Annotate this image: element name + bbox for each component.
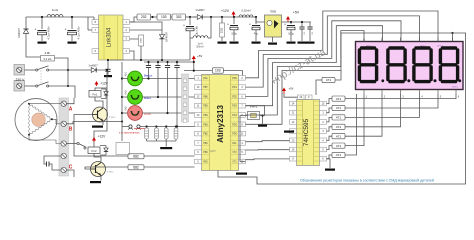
wire C10 gnd: [107, 71, 109, 75]
wire winding to C: [29, 135, 61, 144]
wire +12 to K2: [94, 88, 107, 147]
wire segment bottom 4: [345, 94, 401, 127]
junction ZQ1 gnd: [261, 114, 263, 116]
inductor: [47, 15, 63, 17]
ground U4: [284, 131, 294, 133]
svg-text:Вниз: Вниз: [144, 96, 151, 100]
wire Kn1 left: [122, 78, 128, 80]
display decimal point 4: [458, 79, 461, 82]
capacitor C4 100u: [227, 23, 238, 30]
wire U4 gnd stem: [285, 128, 290, 150]
wire cap top: [157, 62, 159, 66]
wire pull rail gnd: [165, 141, 167, 147]
pin 4 U4: [320, 138, 327, 143]
regulator IC U2 7805: [265, 10, 282, 38]
inductor: [193, 36, 208, 38]
wire segment top 3: [246, 21, 402, 97]
wire segment bottom 2: [345, 94, 438, 108]
wire cap down: [157, 68, 159, 98]
wire U4 gnd link: [288, 130, 291, 132]
pin 8 U1: [92, 20, 99, 25]
wire AC to fuse: [26, 45, 41, 57]
svg-text:+12V: +12V: [221, 9, 230, 13]
capacitor Cb4: [174, 66, 179, 68]
display decimal point 1: [381, 79, 384, 82]
resistor Rs4 471: [332, 124, 345, 129]
resistor R6 682: [128, 154, 144, 159]
svg-text:PB4: PB4: [203, 115, 208, 117]
svg-text:0,2 мА: 0,2 мА: [44, 57, 52, 61]
pin 3 U4: [320, 129, 327, 134]
capacitor C3 10u: [183, 24, 194, 31]
motor M1 body: [15, 99, 57, 141]
terminal X1 220V: [14, 65, 25, 76]
wire L3 to U2: [253, 17, 265, 22]
ground Q2: [90, 181, 101, 183]
ground C5: [252, 42, 261, 44]
svg-text:PD4: PD4: [232, 115, 237, 117]
wire display top pin 2: [381, 38, 383, 42]
capacitor C1 4.7u 450v: [35, 28, 47, 35]
wire R3-VD2: [186, 16, 197, 18]
svg-text:302: 302: [176, 15, 182, 19]
pin R3 U3: [239, 103, 246, 108]
svg-text:103: 103: [215, 69, 221, 73]
wire +5 U4 link: [284, 94, 298, 97]
power +12V arrow 2: [95, 81, 99, 86]
junction HV C1: [41, 16, 43, 18]
wire none: [253, 17, 265, 22]
button Kn4 external: [128, 125, 141, 130]
wire +5V rail out: [282, 21, 312, 23]
pin R9 U3: [239, 159, 246, 164]
svg-text:PB5: PB5: [203, 106, 208, 108]
diode VD1 1N4007: [23, 17, 28, 45]
ground U2: [268, 43, 277, 45]
pin 13 U3: [195, 85, 202, 90]
wire C7 gnd: [301, 29, 303, 41]
wire R2-R3: [171, 16, 173, 18]
ground U4 right: [325, 169, 335, 171]
regulator IC U1 LNK304: [99, 15, 124, 60]
svg-text:+5V: +5V: [293, 11, 300, 15]
svg-text:471: 471: [336, 125, 341, 129]
svg-text:682: 682: [133, 154, 139, 158]
wire segment bottom 6: [345, 94, 364, 146]
junction button left: [121, 112, 123, 114]
junction button left: [121, 77, 123, 79]
wire segment bottom 5: [345, 94, 382, 136]
capacitor: [299, 27, 304, 29]
terminal C1: [61, 141, 66, 146]
display digit 3: [414, 48, 431, 82]
pin R5 U3: [239, 122, 246, 127]
wire X1 to contact: [25, 69, 36, 71]
svg-text:74HC595: 74HC595: [303, 118, 310, 146]
wire display bottom pin 4: [419, 90, 421, 95]
capacitor C9 motor: [47, 162, 50, 167]
wire +5 to U4: [283, 97, 285, 100]
pin 2 U1: [123, 28, 130, 33]
wire C down: [66, 170, 74, 177]
svg-text:+: +: [249, 23, 251, 27]
capacitor Cb1: [146, 66, 151, 68]
wire +5 button bus: [144, 61, 194, 63]
wire C4 top: [233, 17, 235, 24]
wire VD3 top: [130, 22, 163, 26]
wire cap top: [148, 62, 150, 66]
crystal ZQ1 8MHz: [248, 104, 260, 119]
svg-text:PA1: PA1: [232, 142, 237, 145]
shift register U4 74HC595: [297, 100, 320, 166]
svg-text:471: 471: [336, 106, 341, 110]
wire U4 to Rs1: [327, 99, 333, 104]
wire Q1 base: [74, 115, 128, 157]
junction pull R top: [165, 125, 167, 127]
motor M1 rotor: [32, 113, 46, 127]
wire pull R top: [165, 127, 167, 129]
terminal strip XT1: [59, 98, 69, 176]
wire U1 pin4 down: [130, 51, 135, 60]
diode VD2 1N4007: [193, 15, 207, 20]
ground C6: [287, 42, 296, 44]
wire U1 pin1 out: [130, 17, 138, 22]
svg-text:+: +: [284, 23, 286, 27]
wire display top pin 4: [419, 38, 421, 42]
svg-text:PD6: PD6: [232, 134, 237, 136]
pin 2 U4: [320, 120, 327, 125]
pin R4 U3: [239, 113, 246, 118]
svg-text:202: 202: [141, 15, 147, 19]
pin 3 U1: [123, 36, 130, 41]
pin 9 U4 top: [306, 95, 313, 99]
pin 15 U4: [320, 101, 327, 106]
capacitor: [307, 27, 312, 29]
junction cap bus: [157, 61, 159, 63]
wire C1 to ground: [41, 35, 43, 41]
wire C2 top: [71, 17, 73, 29]
capacitor Cb2: [155, 66, 160, 68]
ground ZQ1: [258, 125, 267, 127]
svg-text:KT815: KT815: [107, 172, 114, 174]
wire Kn3 row: [142, 96, 194, 98]
svg-text:2 Вт: 2 Вт: [45, 51, 51, 55]
junction B common: [121, 120, 123, 122]
wire B to common: [66, 122, 122, 124]
wire ZQ1 to XT1: [240, 116, 248, 162]
transistor Q1 KT815: [93, 107, 117, 122]
svg-text:Kn3: Kn3: [124, 90, 127, 95]
svg-text:471: 471: [336, 144, 341, 148]
wire Kn2 left: [122, 112, 128, 114]
wire Q1 emitter: [102, 121, 104, 125]
ground R4: [218, 42, 227, 44]
wire C2 to ground: [71, 35, 73, 41]
node winding1: [28, 103, 30, 105]
diode VD6 relay K2: [100, 146, 108, 156]
motor M1 delta winding: [29, 104, 52, 120]
junction cap row: [176, 125, 178, 127]
junction cap row: [157, 96, 159, 98]
pin 9 U3: [195, 122, 202, 127]
wire pull R top: [146, 127, 148, 129]
pin 6 U3: [195, 150, 202, 155]
resistor R2 103: [157, 14, 171, 20]
pin R7 U3: [239, 141, 246, 146]
contact box K2.2: [116, 143, 130, 155]
svg-text:+: +: [35, 28, 37, 32]
terminal A: [61, 101, 66, 106]
wire R4 top: [221, 17, 223, 23]
wire R4 bottom: [221, 37, 223, 41]
capacitor Cb3: [165, 66, 170, 68]
svg-text:471: 471: [336, 97, 341, 101]
pin R2 U3: [239, 94, 246, 99]
junction relay supply: [106, 69, 108, 71]
resistor R1 202: [137, 14, 151, 20]
pin 5 U4: [320, 147, 327, 152]
wire segment top 6: [246, 33, 453, 124]
junction pull R top: [175, 125, 177, 127]
svg-text:XT2: XT2: [232, 152, 237, 154]
svg-text:682: 682: [133, 165, 139, 169]
wire R6 to MCU: [144, 155, 195, 157]
wire neutral down: [49, 86, 75, 98]
wire U4 to Rs2: [327, 108, 333, 113]
capacitor C6 100u: [284, 23, 295, 30]
ground C1: [38, 42, 47, 44]
svg-text:Обозначения резисторов показан: Обозначения резисторов показаны в соотве…: [300, 179, 434, 183]
wire pull R top: [175, 127, 177, 129]
wire button common: [121, 62, 123, 141]
wire C3 top: [189, 17, 191, 25]
wire display bottom pin 1: [363, 90, 365, 95]
pin 4 U1: [123, 49, 130, 54]
wire C6 gnd: [290, 30, 292, 41]
ground buttons: [160, 147, 172, 149]
junction +5 reset: [193, 70, 195, 72]
pin R8 U3: [239, 150, 246, 155]
svg-text:UF4007: UF4007: [165, 32, 169, 42]
svg-text:PB3: PB3: [203, 124, 208, 126]
pin 14 U4: [290, 101, 297, 106]
pin 8 U3: [195, 131, 202, 136]
wire lower rail: [110, 59, 190, 61]
resistor R5 feedback: [139, 35, 144, 46]
junction phase A: [67, 69, 69, 71]
wire VD4 to relay rail: [95, 70, 107, 91]
wire U4 to Rs4: [327, 127, 333, 131]
node winding2: [51, 118, 53, 120]
pin 1 U1: [123, 20, 130, 25]
wire C8 top: [309, 22, 311, 27]
wire R1-R2: [151, 16, 158, 18]
display decimal point 2: [407, 79, 410, 82]
pin 1 U3: [195, 76, 202, 81]
junction VD3 rail: [161, 59, 163, 61]
wire ZQ1 gnd stem: [262, 116, 264, 125]
wire L2 up: [208, 17, 211, 38]
resistor Rp1 pull: [145, 128, 149, 139]
svg-text:PD2: PD2: [232, 96, 237, 98]
wire display return loop: [218, 33, 466, 184]
junction HV C2: [71, 16, 73, 18]
svg-text:PD3: PD3: [232, 106, 237, 108]
resistor Rs3 471: [332, 115, 345, 120]
resistor R8 103: [212, 68, 223, 73]
svg-text:PB0: PB0: [203, 152, 208, 154]
junction R1 out: [151, 16, 153, 18]
wire U1 pin2 to VD3: [130, 29, 163, 31]
svg-text:+12V: +12V: [98, 135, 106, 139]
display HG1 4-digit 7-segment: [356, 42, 464, 90]
junction cap bus: [166, 61, 168, 63]
wire MOSI to U4: [246, 141, 290, 142]
pin 12 U3: [195, 94, 202, 99]
pin 11 U4: [290, 110, 297, 115]
wire U4 to Rs7: [327, 155, 333, 159]
pin 5 U1: [92, 49, 99, 54]
resistor Rs7 471: [332, 152, 345, 157]
wire R5 down: [140, 46, 142, 60]
svg-text:PA0: PA0: [203, 161, 208, 164]
button Kn2: [128, 106, 143, 121]
ground C10: [104, 75, 112, 77]
relay K2 coil: [88, 147, 100, 154]
contact K1.1: [36, 66, 49, 71]
wire C9 left: [44, 156, 61, 164]
svg-text:4,7µ x 450v: 4,7µ x 450v: [48, 26, 51, 40]
svg-text:PA2: PA2: [203, 77, 208, 80]
button Kn1: [128, 71, 143, 86]
pin 5 U3: [195, 159, 202, 164]
wire K2 to Q2 collector: [94, 154, 101, 162]
wire R8 to +5: [184, 70, 212, 72]
wire pull R top: [155, 127, 157, 129]
svg-text:XT1: XT1: [232, 162, 237, 164]
svg-text:220 V: 220 V: [16, 78, 26, 82]
svg-text:+: +: [183, 24, 185, 28]
wire U4 to Rs6: [327, 146, 333, 150]
wire Q2 base: [85, 167, 128, 169]
svg-text:PD0: PD0: [232, 78, 237, 80]
diode VD3 UF4007: [160, 26, 169, 48]
wire stub: [109, 59, 111, 62]
svg-text:PD1: PD1: [232, 87, 237, 89]
wire cap down: [148, 68, 150, 79]
svg-text:к гл. выключателю: к гл. выключателю: [119, 131, 140, 134]
pin R0 U3: [239, 76, 246, 81]
svg-text:+12V: +12V: [100, 82, 108, 86]
display decimal point 3: [434, 79, 437, 82]
svg-text:103: 103: [161, 15, 167, 19]
wire R7 to MCU: [144, 166, 195, 168]
svg-text:2032: 2032: [220, 27, 223, 33]
wire cap down: [167, 68, 169, 114]
capacitor: [105, 69, 110, 71]
svg-text:1mH: 1mH: [52, 8, 58, 12]
svg-text:10µ x 36v: 10µ x 36v: [196, 25, 199, 36]
pin 16 U4 top: [298, 95, 305, 99]
pin 13 U4: [290, 129, 297, 134]
junction pull R top: [155, 125, 157, 127]
junction +5 bus: [193, 61, 195, 63]
ground C8: [306, 42, 315, 44]
resistor Rp2 pull: [155, 128, 159, 139]
wire pull R bottom: [155, 139, 157, 141]
power +12V arrow: [232, 11, 236, 17]
junction cap bus: [147, 61, 149, 63]
wire segment top 1: [246, 11, 439, 78]
ground C7: [298, 42, 307, 44]
display digit 1: [359, 48, 376, 82]
svg-text:+: +: [227, 23, 229, 27]
wire red link: [134, 128, 147, 130]
wire pull rail: [147, 140, 176, 142]
wire display top pin 3: [400, 38, 402, 42]
wire ZQ1 to XT2: [246, 106, 265, 116]
junction C5 top: [255, 16, 257, 18]
svg-text:Kn1: Kn1: [124, 71, 127, 76]
fuse FU1: [41, 51, 55, 61]
junction phase B: [67, 85, 69, 87]
ground Q1: [92, 126, 103, 128]
wire contact link: [40, 68, 42, 84]
svg-text:280mA: 280mA: [196, 46, 204, 49]
junction R5 rail: [140, 59, 142, 61]
svg-text:0,22mH: 0,22mH: [241, 9, 250, 13]
power +5V arrow 3: [282, 88, 286, 95]
svg-text:+5V: +5V: [197, 54, 202, 58]
wire display top pin 6: [452, 38, 454, 42]
wire phase to VD4: [49, 69, 83, 71]
wire U3 gnd stem: [240, 171, 242, 174]
diode VD4 1N4007: [83, 68, 105, 73]
junction C3 tap: [189, 16, 191, 18]
svg-text:Lnk304: Lnk304: [107, 27, 113, 47]
svg-text:8 мГц: 8 мГц: [250, 104, 258, 108]
node winding3: [28, 134, 30, 136]
relay K1 coil: [89, 91, 101, 98]
resistor R3 302: [172, 14, 186, 20]
wire Kn2 row: [142, 112, 194, 114]
wire rail to L2: [189, 38, 191, 60]
wire latch to U4: [246, 158, 290, 161]
wire to U1 pin8: [94, 17, 98, 22]
wire display top pin 5: [437, 38, 439, 42]
wire C10 top: [107, 60, 109, 69]
resistor Rs1 471: [332, 96, 345, 101]
wire U1 pin7 loop: [87, 17, 89, 30]
capacitor C5 47u: [249, 23, 260, 30]
wire U4 to Rs3: [327, 117, 333, 122]
pin 10 U3: [195, 113, 202, 118]
junction cap row: [147, 77, 149, 79]
wire display bottom pin 3: [400, 90, 402, 95]
resistor R7 682: [128, 165, 144, 170]
wire display bottom pin 6: [455, 90, 457, 95]
wire +5 drop: [193, 62, 195, 71]
svg-text:A: A: [69, 107, 73, 113]
svg-text:471: 471: [336, 134, 341, 138]
wire HV+ rail: [26, 16, 94, 18]
svg-text:+5V: +5V: [288, 87, 293, 91]
power +12V arrow 3: [92, 137, 96, 142]
svg-text:471: 471: [326, 78, 331, 82]
ground U3: [236, 173, 247, 175]
pin 7 U1: [92, 28, 99, 33]
resistor Rs5 471: [332, 134, 345, 139]
